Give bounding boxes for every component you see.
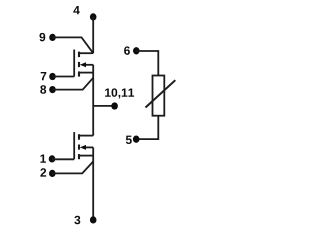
wire pin 2 to Q2 source — [52, 161, 93, 173]
pin label 4 — [73, 6, 79, 14]
pin label 8 — [40, 85, 46, 94]
pin 8 terminal — [49, 86, 56, 93]
node 10,11 terminal — [111, 102, 118, 109]
pin label 2 — [40, 168, 46, 176]
pin 9 terminal — [49, 34, 56, 41]
pin label 3 — [74, 216, 80, 225]
pin label 6 — [124, 46, 130, 55]
pin label 1 — [40, 154, 46, 162]
wire pin 8 to Q1 source — [53, 78, 94, 90]
wire RT1 bottom to pin 5 — [136, 116, 158, 139]
pin 4 terminal — [90, 13, 97, 20]
wire pin 4 drain bus — [92, 17, 94, 53]
pin label 5 — [126, 136, 132, 144]
transistor Q2 — [74, 132, 93, 159]
pin label 7 — [41, 72, 47, 80]
thermistor RT1 diagonal stroke — [146, 80, 176, 107]
pin label 9 — [39, 33, 45, 42]
wire pin 6 to RT1 top — [136, 51, 158, 76]
thermistor RT1 body — [153, 76, 165, 116]
wire Q1 source to Q2 drain — [92, 65, 94, 136]
pin 3 terminal — [90, 216, 97, 223]
node label 10,11 — [105, 88, 134, 98]
wire pin 7 to Q1 gate — [53, 76, 75, 78]
wire pin 1 to Q2 gate — [52, 158, 74, 160]
pin 7 terminal — [49, 73, 56, 80]
pin 2 terminal — [49, 170, 56, 177]
wire node 10,11 stub — [93, 105, 114, 107]
wire Q2 source to pin 3 — [92, 147, 94, 220]
wire pin 9 to Q1 drain — [53, 37, 94, 53]
transistor Q1 — [74, 50, 93, 77]
pin 5 terminal — [133, 136, 140, 143]
pin 6 terminal — [133, 47, 140, 54]
pin 1 terminal — [49, 155, 56, 162]
